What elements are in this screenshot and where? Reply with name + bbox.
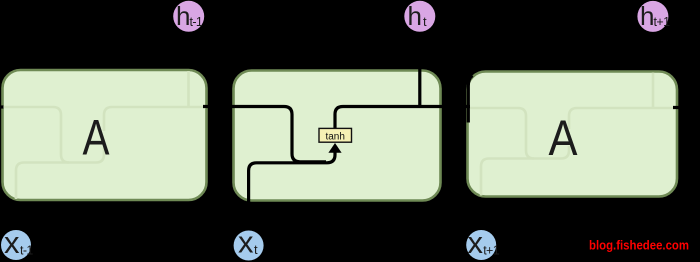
svg-text:t: t	[423, 14, 427, 29]
svg-text:x: x	[238, 224, 254, 259]
svg-text:t+1: t+1	[654, 15, 671, 29]
svg-text:h: h	[408, 1, 422, 31]
svg-text:t+1: t+1	[483, 244, 500, 258]
svg-text:x: x	[4, 225, 20, 260]
svg-text:h: h	[640, 1, 654, 31]
svg-text:tanh: tanh	[325, 131, 344, 142]
svg-text:t-1: t-1	[190, 15, 203, 29]
svg-text:t: t	[254, 242, 258, 257]
svg-text:blog.fishedee.com: blog.fishedee.com	[589, 238, 689, 253]
svg-text:x: x	[468, 225, 484, 260]
svg-text:A: A	[549, 110, 579, 166]
svg-text:A: A	[83, 109, 111, 165]
svg-text:t-1: t-1	[20, 244, 33, 258]
svg-text:h: h	[176, 1, 190, 31]
